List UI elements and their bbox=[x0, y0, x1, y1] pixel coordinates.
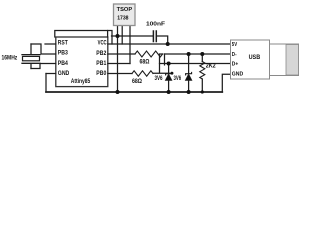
TSOP box U2 bbox=[114, 4, 136, 26]
zener D1 bar bbox=[166, 72, 172, 75]
wire PB1 row bbox=[108, 63, 130, 65]
resistor R3 2K2 zigzag bbox=[200, 62, 205, 80]
zener D2 triangle bbox=[185, 74, 191, 80]
node TSOP pin1 / rail bbox=[116, 34, 120, 38]
svg-text:D+: D+ bbox=[232, 61, 239, 67]
USB connector J1 box bbox=[231, 40, 299, 79]
wire VCC row to USB 5V bbox=[108, 43, 231, 45]
svg-text:TSOP: TSOP bbox=[117, 7, 133, 13]
wire top rail left bbox=[112, 35, 153, 37]
node zener1 / D+ bbox=[167, 62, 171, 66]
svg-text:1738: 1738 bbox=[117, 16, 129, 22]
svg-text:68Ω: 68Ω bbox=[140, 59, 150, 66]
svg-text:USB: USB bbox=[249, 54, 261, 61]
zener D2 bar bbox=[186, 72, 192, 75]
svg-text:PB3: PB3 bbox=[58, 50, 69, 56]
svg-text:D-: D- bbox=[232, 52, 237, 58]
svg-text:VCC: VCC bbox=[98, 41, 107, 47]
wire ground bus bbox=[46, 91, 222, 93]
wire jog riser to D- bbox=[164, 54, 166, 65]
node 2K2 / bus bbox=[201, 90, 204, 93]
wire PB0 res to zener node bbox=[153, 72, 172, 74]
wire GND down to bus bbox=[45, 74, 47, 93]
wire PB2 row bbox=[108, 53, 135, 55]
wire USB GND bbox=[222, 74, 230, 92]
wire riser at IC top-right corner bbox=[107, 31, 109, 38]
svg-text:RST: RST bbox=[58, 41, 68, 47]
TSOP pin 2 to VCC bbox=[121, 26, 123, 45]
capacitor C1 100nF bbox=[152, 31, 154, 42]
wire PB2 res to jog bbox=[160, 54, 163, 73]
zener D1 triangle bbox=[165, 74, 171, 80]
node zener1 / bus bbox=[167, 90, 171, 94]
resistor R2 68ohm (PB0) bbox=[132, 71, 153, 76]
svg-text:3V6: 3V6 bbox=[174, 75, 182, 82]
svg-text:68Ω: 68Ω bbox=[132, 78, 142, 85]
wire D+ line to USB bbox=[169, 63, 231, 65]
wire top rail right + drop to 5V bbox=[157, 36, 168, 44]
TSOP pin 3 to PB1 bbox=[129, 26, 131, 64]
svg-text:16MHz: 16MHz bbox=[2, 56, 18, 62]
svg-text:PB1: PB1 bbox=[96, 61, 107, 67]
node PB0 wire end bbox=[171, 72, 174, 75]
node cap drop / 5V bbox=[166, 42, 170, 46]
svg-text:2K2: 2K2 bbox=[206, 63, 216, 70]
TSOP pin 1 (gnd) long vertical bbox=[117, 26, 119, 93]
wire jog run on D+ line bbox=[160, 63, 169, 65]
svg-text:3V6: 3V6 bbox=[155, 75, 163, 82]
zener D1 3V6 top lead bbox=[168, 64, 170, 74]
junction dots bbox=[116, 34, 205, 94]
wire VCC jog up bbox=[55, 31, 112, 45]
node TSOP pin1 / bus bbox=[116, 90, 120, 94]
node zener2 / bus bbox=[187, 90, 191, 94]
wire PB4 zigzag to crystal bbox=[31, 64, 56, 69]
zener D2 3V6 top lead from D- bbox=[188, 54, 190, 73]
IC U1 Attiny85 box bbox=[56, 37, 108, 87]
wire PB0 row bbox=[108, 73, 132, 75]
resistor R3 2K2 bottom lead bbox=[201, 79, 203, 92]
crystal X1 16MHz bbox=[22, 54, 40, 56]
wire D- line to USB bbox=[165, 53, 231, 55]
wire RST stub bbox=[45, 43, 56, 45]
svg-text:GND: GND bbox=[232, 72, 243, 78]
zener D1 bottom lead bbox=[168, 80, 170, 92]
wire crystal bottom lead bbox=[30, 64, 32, 69]
resistor R1 68ohm (PB2) bbox=[135, 51, 163, 57]
svg-text:Attiny85: Attiny85 bbox=[71, 78, 91, 85]
connector body bbox=[270, 44, 299, 76]
node 2K2 / D- bbox=[200, 52, 204, 56]
svg-text:5V: 5V bbox=[232, 42, 238, 48]
svg-text:PB0: PB0 bbox=[96, 71, 107, 77]
svg-text:PB4: PB4 bbox=[58, 61, 69, 67]
svg-text:100nF: 100nF bbox=[146, 22, 166, 28]
wire PB3 zigzag to crystal bbox=[31, 44, 56, 54]
resistor R3 2K2 top lead bbox=[201, 54, 203, 62]
wire crystal top lead bbox=[30, 44, 32, 54]
zener D2 bottom lead bbox=[188, 80, 190, 92]
wire GND stub left bbox=[46, 73, 56, 75]
svg-text:PB2: PB2 bbox=[96, 51, 107, 57]
labels bbox=[2, 22, 261, 86]
node zener2 / D- bbox=[187, 52, 191, 56]
connector gray block bbox=[286, 45, 299, 76]
svg-text:GND: GND bbox=[58, 71, 70, 77]
